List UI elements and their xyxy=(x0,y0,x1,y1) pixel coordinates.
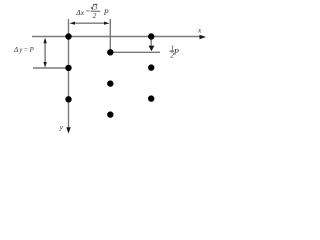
svg-text:y: y xyxy=(59,123,64,132)
svg-text:Δy=P: Δy=P xyxy=(13,46,35,54)
svg-text:P: P xyxy=(103,8,109,17)
svg-text:P: P xyxy=(173,47,179,57)
svg-text:=: = xyxy=(85,7,90,16)
svg-text:2: 2 xyxy=(93,11,97,20)
svg-text:x: x xyxy=(197,26,202,35)
svg-text:Δx: Δx xyxy=(75,8,84,17)
